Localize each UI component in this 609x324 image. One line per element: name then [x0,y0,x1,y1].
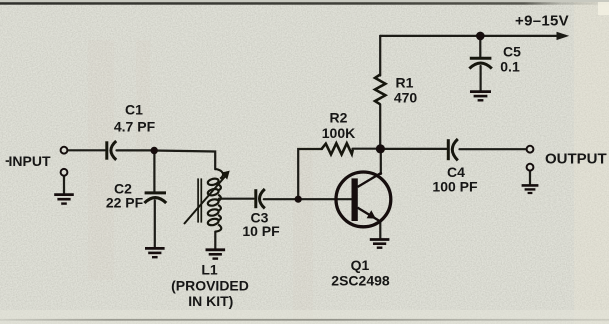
wire: INPUT ground terminal drop [63,176,65,193]
wire: Q1 emitter down to ground [379,222,381,239]
ground (C2) [145,248,165,257]
svg-text:10 PF: 10 PF [242,223,280,239]
wire: INPUT terminal to C1 [68,149,105,151]
wire: R1 bottom lead to node C [379,105,381,149]
resistor R2 [321,143,353,154]
supply rail junction dot [476,32,485,41]
wire: +V supply rail [380,35,559,37]
svg-text:100 PF: 100 PF [432,179,478,195]
svg-text:R1: R1 [396,74,414,90]
capacitor C2 [144,193,166,203]
transistor Q1 [336,172,391,227]
svg-text:+9–15V: +9–15V [515,13,569,30]
INPUT terminal [61,147,68,154]
wire: node A down to C2 [153,151,155,192]
svg-text:470: 470 [394,89,418,105]
ground (output) [522,185,539,193]
svg-text:INPUT: INPUT [9,153,51,169]
wire: node C to C4 [381,148,447,150]
wire: rail to C5 top [479,36,481,57]
ground (L1) [206,250,226,259]
inductor L1 core bars [198,178,201,222]
capacitor C5 [469,58,491,68]
svg-text:22 PF: 22 PF [106,194,144,210]
node C junction dot [376,144,385,153]
stray scan mark left of INPUT [6,160,9,162]
wire: C3 to node B [264,198,298,200]
node B junction dot [295,196,302,203]
wire: L1 bottom to ground [214,232,216,249]
inductor L1 coil [207,169,223,232]
wire: C4 to OUTPUT terminal [460,148,527,150]
OUTPUT ground terminal [527,164,534,171]
wire: supply rail corner down to R1 top [379,36,381,76]
svg-text:OUTPUT: OUTPUT [545,150,607,167]
wire: L1 tap to C3 [219,198,254,200]
inductor L1 tuning arrow [184,171,230,224]
svg-text:4.7 PF: 4.7 PF [114,119,156,135]
svg-text:0.1: 0.1 [500,58,520,74]
node A junction dot [151,147,158,154]
svg-text:IN KIT): IN KIT) [188,293,233,309]
bottom border frame line [0,319,609,321]
top border frame line [0,2,609,4]
wire: C2 bottom to ground [154,201,156,248]
svg-text:(PROVIDED: (PROVIDED [171,278,249,294]
wire: OUTPUT ground terminal drop [529,171,531,185]
ground (C5) [470,92,491,101]
svg-text:Q1: Q1 [351,257,370,273]
ground (input) [54,195,74,204]
svg-text:C1: C1 [125,101,143,117]
INPUT ground terminal [61,169,68,176]
capacitor C1 [107,141,116,160]
wire: node A to L1 top (horizontal + vertical) [154,151,215,170]
svg-text:2SC2498: 2SC2498 [331,273,390,289]
ground (Q1 emitter) [370,240,390,248]
capacitor C3 [256,189,265,208]
svg-text:R2: R2 [330,109,348,125]
svg-text:L1: L1 [201,262,218,278]
wire: C5 bottom to ground [480,66,482,91]
svg-text:100K: 100K [322,125,355,141]
wire: node B up to R2 left [298,149,322,199]
wire: R2 right to node C [353,148,381,150]
resistor R1 [375,75,385,105]
wire: node B to Q1 base [298,198,351,200]
wire: C1 to node A [117,149,155,151]
capacitor C4 [448,139,458,160]
wire: node C down to Q1 collector [380,149,382,174]
supply rail arrowhead [557,32,570,40]
OUTPUT terminal [527,146,534,153]
svg-text:C5: C5 [503,43,521,59]
